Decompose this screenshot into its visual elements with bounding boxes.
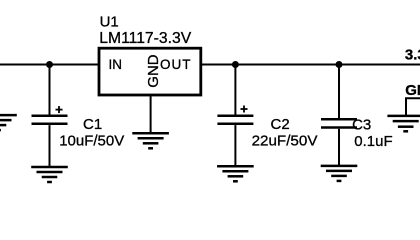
svg-text:22uF/50V: 22uF/50V	[252, 132, 319, 149]
svg-text:IN: IN	[109, 57, 123, 72]
svg-text:OUT: OUT	[160, 57, 192, 72]
svg-text:C3: C3	[352, 117, 371, 134]
svg-text:10uF/50V: 10uF/50V	[59, 132, 124, 149]
svg-text:3.3V: 3.3V	[405, 47, 420, 64]
svg-text:GND: GND	[145, 54, 162, 88]
svg-text:C1: C1	[83, 116, 102, 133]
svg-text:C2: C2	[271, 116, 290, 133]
svg-text:U1: U1	[100, 14, 119, 31]
svg-text:LM1117-3.3V: LM1117-3.3V	[99, 30, 191, 47]
svg-text:0.1uF: 0.1uF	[354, 133, 392, 150]
svg-text:GND: GND	[405, 82, 420, 99]
